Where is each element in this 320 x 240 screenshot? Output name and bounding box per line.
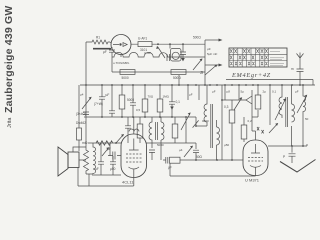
svg-text:µF: µF <box>295 90 299 94</box>
tube V1 cathode <box>129 167 140 178</box>
wire speaker bottom lead <box>78 160 86 186</box>
wire tube V2 top feed <box>252 117 256 140</box>
wire x110 drop <box>109 143 111 156</box>
bus3 y143 <box>88 142 196 144</box>
arrow pointer A1 <box>205 39 220 41</box>
tube V1 grids <box>126 154 142 162</box>
wire drop x225 <box>224 85 226 100</box>
svg-text:5µ: 5µ <box>241 90 245 94</box>
dial drive hub dot <box>119 43 121 45</box>
tube V2 grids <box>248 158 263 162</box>
resistor R13 box (x258) <box>257 85 259 95</box>
output tube V2 envelope <box>243 140 268 176</box>
chevron pointer <box>280 160 316 173</box>
svg-text:m: m <box>291 67 294 71</box>
node dots on y44 <box>157 43 159 45</box>
potentiometer triangle <box>246 90 252 117</box>
row y72 line <box>112 57 205 72</box>
wire circle bottom tap <box>120 55 122 58</box>
svg-text:Zaubergeige 439 GW: Zaubergeige 439 GW <box>3 6 15 113</box>
svg-text:4CL11: 4CL11 <box>122 180 134 185</box>
capacitor C3 in heater line <box>167 54 170 61</box>
switch table X marks row 3 <box>230 62 267 65</box>
wire tube V1 bottom to ground run <box>133 178 135 187</box>
wire left rail 2 (x79) <box>78 85 80 151</box>
capacitor C8 (x152 lower) <box>149 150 155 160</box>
wire drop x196 detector <box>196 117 207 126</box>
capacitor C2 with polarity <box>180 44 186 58</box>
wire drop x239 <box>238 85 240 100</box>
IF transformer T1 winding a <box>149 117 152 148</box>
output tube V1 envelope <box>121 134 147 178</box>
misc value labels <box>80 90 309 153</box>
capacitor C1 under circle <box>109 47 115 57</box>
svg-text:µ50: µ50 <box>224 143 229 147</box>
capacitor C7 (x128) <box>125 117 131 143</box>
wire y176 return <box>170 164 256 177</box>
svg-text:µF: µF <box>95 167 99 171</box>
svg-text:S: S <box>200 70 203 75</box>
resistor R3 box on y72 <box>120 70 135 75</box>
wire drop x188 <box>187 85 189 100</box>
resistor R4 box on y72 <box>171 70 186 75</box>
switch table legend lines <box>270 52 284 66</box>
resistor R1 (antenna series) <box>86 40 110 44</box>
capacitor C16 (x112) <box>109 85 115 117</box>
svg-text:µ50: µ50 <box>110 167 116 171</box>
heater line with coil humps <box>112 52 205 57</box>
svg-text:5000: 5000 <box>127 98 134 102</box>
switch S3 <box>116 135 123 143</box>
svg-text:5µF mF: 5µF mF <box>207 52 218 56</box>
capacitor C11 (x113) <box>110 156 116 175</box>
transformer output winding <box>93 146 96 176</box>
svg-text:µ9: µ9 <box>207 47 211 51</box>
capacitor C5 (x133) <box>130 85 136 117</box>
bus2 dots <box>101 116 103 118</box>
svg-text:0,3: 0,3 <box>224 105 229 109</box>
switch S4 lower left <box>102 148 109 156</box>
switch S5 <box>184 146 192 157</box>
resistor R12 box (x244) <box>243 117 245 125</box>
svg-text:EM4Egr+4Z: EM4Egr+4Z <box>231 72 271 79</box>
svg-text:0,1: 0,1 <box>176 100 181 104</box>
brand text Jrita (rotated) <box>7 117 13 128</box>
speaker LS1 cone <box>58 147 68 176</box>
pot arrow right <box>269 124 278 133</box>
switch table row lines <box>229 54 287 60</box>
svg-text:0,2: 0,2 <box>248 119 253 123</box>
capacitor C9 grid (left of tube) <box>108 152 121 160</box>
IF transformer T2 winding a <box>204 85 207 126</box>
dial drive circle <box>111 35 131 55</box>
capacitor C12 (x196) <box>193 143 199 160</box>
IF transformer T3 winding b <box>292 85 295 146</box>
IF transformer T3 winding a <box>279 85 282 118</box>
svg-text:5000: 5000 <box>157 143 164 147</box>
wire bottom join y175 <box>94 174 121 176</box>
resistor R7 box (x160) <box>159 85 161 99</box>
tube V2 cathode <box>250 166 261 176</box>
bus junction dots <box>85 84 304 86</box>
variable arrow osc <box>297 96 307 113</box>
switch table X marks row 2 <box>230 56 268 60</box>
capacitor C10 (x101) <box>98 143 104 175</box>
switch S2 diagonal <box>193 59 202 70</box>
svg-text:Jrita: Jrita <box>7 117 13 128</box>
svg-text:(7+W): (7+W) <box>94 102 103 106</box>
wire bottom-left ground run <box>78 185 134 187</box>
svg-text:1MΩ: 1MΩ <box>163 95 170 99</box>
svg-text:U M371: U M371 <box>245 178 260 183</box>
svg-text:R1: R1 <box>96 36 100 40</box>
antenna input top right <box>297 53 304 86</box>
wire x270 drop <box>269 85 271 125</box>
wire x222 drop <box>222 85 246 160</box>
capacitor C14 (x292) <box>289 146 296 163</box>
switch arrow S6 <box>234 98 242 110</box>
switch S1 <box>158 47 166 59</box>
switch table frame <box>229 48 287 67</box>
capacitor C6 electrolytic (x172) <box>169 85 175 117</box>
title text Zaubergeige 439 GW (rotated) <box>3 6 15 113</box>
capacitor C13 + box in series y160 <box>166 157 168 164</box>
svg-text:0000: 0000 <box>202 119 209 123</box>
wire drop x179 <box>178 75 180 85</box>
resistor R8 box (x140) <box>139 117 141 124</box>
wire x252 to tube2 <box>252 110 258 117</box>
variable arrow on left rail <box>82 98 91 110</box>
svg-text:µ8: µ8 <box>227 90 231 94</box>
variable arrow (x186) <box>181 114 190 144</box>
wire circle to R1 <box>110 42 112 43</box>
svg-text:5000: 5000 <box>122 76 129 80</box>
main bus y85 <box>80 84 315 86</box>
IF transformer T3 core <box>286 97 288 127</box>
svg-text:Dw462: Dw462 <box>76 121 86 125</box>
svg-text:500Ω: 500Ω <box>173 76 181 80</box>
capacitor C4 (x102) <box>99 85 105 117</box>
variable core arrow T3 <box>275 100 285 120</box>
resistor R2 box <box>138 42 152 47</box>
tube V1 anode <box>129 139 139 151</box>
wire transformer tops to bus <box>86 143 93 147</box>
dial drive pointer <box>113 43 127 47</box>
wire y160 line <box>163 159 243 161</box>
resistor R10 zigzag on bus3 <box>96 141 113 145</box>
trimmer with circle <box>171 49 182 62</box>
grid coil bumps above tube V1 <box>129 129 139 132</box>
capacitor C15 on left rail x86 <box>83 112 89 115</box>
svg-text:70Ω: 70Ω <box>148 95 154 99</box>
resistor field coil (vertical zigzag) <box>84 147 89 174</box>
svg-text:0,1: 0,1 <box>272 90 277 94</box>
resistor R14 box on left rail 2 <box>77 128 82 140</box>
wire anode line y44 <box>131 43 205 45</box>
IF transformer T1 winding b <box>161 117 164 160</box>
switch S7 <box>193 120 199 127</box>
switch table X marks row 1 <box>230 49 268 53</box>
wire tube V1 top feed <box>133 117 135 134</box>
IF transformer T2 core <box>211 104 213 148</box>
svg-text:U·AF: U·AF <box>144 51 151 55</box>
switch table column lines <box>233 48 268 67</box>
ferrite bar <box>93 48 111 50</box>
svg-text:u.TON/ABN.: u.TON/ABN. <box>113 61 130 65</box>
svg-text:50Ω: 50Ω <box>196 155 203 159</box>
wire right collector x205 <box>204 40 206 85</box>
wire speaker bottoms join <box>86 174 93 186</box>
oscillator coil (x303) <box>303 85 306 146</box>
svg-text:(3×4Ω): (3×4Ω) <box>76 112 86 116</box>
svg-text:µF: µF <box>106 93 110 97</box>
tube V2 anode <box>251 144 260 153</box>
IF transformer T2 winding b <box>217 120 220 160</box>
resistor R9 box (x175) <box>174 117 176 124</box>
svg-text:2µ: 2µ <box>263 90 267 94</box>
svg-text:µF: µF <box>189 93 193 97</box>
wire tube V2 right side <box>268 144 307 146</box>
svg-text:µ4: µ4 <box>179 148 183 152</box>
IF transformer T1 core <box>156 122 158 140</box>
resistor R6 box (x145) <box>144 85 146 99</box>
resistor R5 box (x122) <box>121 85 123 95</box>
arrow pointer A2 <box>205 64 220 66</box>
mains contact crosses <box>257 127 264 133</box>
svg-text:0,5: 0,5 <box>136 108 141 112</box>
svg-text:mΩ: mΩ <box>82 141 88 145</box>
svg-text:500Ω: 500Ω <box>193 36 201 40</box>
wire left rail <box>85 42 87 143</box>
svg-text:µF: µF <box>103 50 107 54</box>
resistor R11 box (x232) <box>231 100 233 110</box>
bus2 y117 <box>84 116 196 118</box>
svg-text:µF: µF <box>212 90 216 94</box>
svg-text:µ4: µ4 <box>80 93 84 97</box>
svg-text:50: 50 <box>305 117 309 121</box>
svg-text:U·AF1: U·AF1 <box>138 37 147 41</box>
wire speaker top lead <box>73 147 86 152</box>
speaker LS1 magnet box <box>68 152 79 168</box>
wire sub-bus under table <box>226 80 313 86</box>
wire drop x199 <box>198 85 200 100</box>
svg-text:µ: µ <box>283 154 285 158</box>
